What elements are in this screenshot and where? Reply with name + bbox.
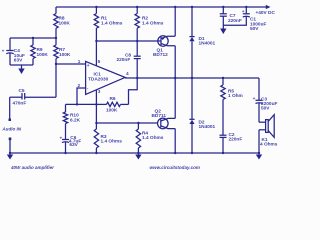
svg-text:+: +: [242, 10, 245, 15]
speaker K1: [259, 121, 266, 123]
resistor R3: [95, 123, 97, 129]
diode D1: [191, 6, 193, 8]
svg-text:BD711: BD711: [152, 113, 167, 119]
svg-text:6.2K: 6.2K: [70, 117, 81, 123]
resistor R8: [55, 7, 57, 14]
capacitor C2: [220, 134, 227, 136]
wire Q1 emitter to rail: [174, 6, 176, 8]
svg-text:www.circuitstoday.com: www.circuitstoday.com: [150, 165, 200, 170]
node input ground terminal: [9, 138, 12, 141]
svg-text:220nF: 220nF: [117, 57, 131, 63]
svg-text:1N4001: 1N4001: [199, 40, 216, 46]
svg-text:100K: 100K: [59, 20, 71, 26]
svg-text:BD712: BD712: [153, 52, 168, 58]
svg-text:+: +: [87, 64, 90, 69]
svg-text:50V: 50V: [250, 26, 259, 32]
ground (bias network): [21, 65, 23, 69]
ground (rail left end): [9, 153, 11, 155]
svg-text:3: 3: [98, 89, 101, 95]
svg-text:4 Ohms: 4 Ohms: [260, 142, 278, 148]
resistor R2: [136, 6, 138, 8]
wire base node y41: [96, 40, 157, 42]
svg-text:63V: 63V: [69, 142, 78, 148]
resistor R9: [32, 38, 34, 45]
resistor R7: [55, 38, 57, 45]
capacitor C8 220nF: [136, 40, 138, 42]
wire C4-R9 ground link: [10, 64, 33, 66]
wire feedback jog to output: [129, 78, 138, 104]
svg-text:220nF: 220nF: [228, 18, 242, 24]
svg-text:TDA2030: TDA2030: [88, 77, 109, 83]
transistor Q2 BD711: [158, 118, 169, 129]
svg-text:+: +: [2, 49, 5, 54]
node audio in terminal: [9, 119, 12, 122]
svg-text:+: +: [60, 136, 63, 141]
op-amp IC1 TDA2030: [86, 61, 126, 94]
svg-text:220nF: 220nF: [229, 137, 243, 143]
svg-text:470nF: 470nF: [13, 100, 27, 106]
node +40V DC terminal: [266, 5, 271, 9]
wire Q1 collector to output: [174, 46, 176, 78]
ground (rail middle): [137, 153, 139, 155]
svg-text:Audio IN: Audio IN: [1, 127, 21, 132]
wire Q2 collector to output: [174, 78, 176, 118]
svg-text:63V: 63V: [14, 58, 23, 64]
svg-text:IC1: IC1: [94, 72, 102, 78]
svg-text:1.4 Ohms: 1.4 Ohms: [142, 135, 164, 141]
svg-text:100K: 100K: [59, 52, 71, 58]
ground (rail right end): [258, 153, 260, 155]
capacitor C4: [9, 38, 11, 51]
wire top rail +40V: [56, 6, 266, 8]
node R3 top: [95, 122, 97, 124]
svg-text:+40V DC: +40V DC: [256, 10, 276, 16]
capacitor C1: [245, 6, 247, 8]
svg-text:+: +: [253, 97, 256, 102]
svg-text:R6: R6: [110, 96, 116, 102]
resistor R6: [96, 103, 106, 105]
wire Q2 emitter to rail: [174, 129, 176, 153]
wire pin 5: [95, 40, 97, 42]
wire bottom ground rail: [10, 152, 259, 154]
wire pin 1: [56, 63, 86, 65]
svg-text:4: 4: [126, 71, 129, 77]
wire pin 3: [95, 90, 97, 123]
wire bias node y38: [10, 37, 56, 39]
resistor R4: [137, 123, 139, 129]
svg-text:50V: 50V: [261, 106, 270, 112]
diode D2: [191, 78, 193, 119]
svg-text:5: 5: [98, 59, 101, 65]
resistor R10: [65, 104, 67, 112]
svg-text:40W audio amplifier: 40W audio amplifier: [10, 165, 54, 170]
wire pin 2: [77, 88, 86, 104]
node R4 top: [137, 122, 139, 124]
resistor R5: [222, 78, 224, 85]
wire audio input lead: [9, 97, 11, 118]
wire feedback link: [66, 103, 97, 105]
svg-text:100K: 100K: [37, 52, 49, 58]
capacitor C5 input: [25, 96, 56, 98]
svg-text:1 Ohm: 1 Ohm: [228, 93, 243, 99]
wire output node y78: [125, 77, 259, 79]
svg-text:1: 1: [78, 59, 81, 65]
transistor Q1 BD712: [158, 36, 168, 46]
svg-text:100K: 100K: [106, 108, 118, 114]
svg-text:1.4 Ohms: 1.4 Ohms: [142, 20, 164, 26]
capacitor C3: [258, 78, 260, 100]
node pin1 junction: [55, 63, 57, 65]
capacitor C6: [65, 124, 67, 140]
wire input ground stub: [9, 139, 11, 153]
svg-text:1.4 Ohms: 1.4 Ohms: [101, 20, 123, 26]
svg-text:C5: C5: [19, 88, 25, 94]
svg-text:1N4001: 1N4001: [199, 124, 216, 130]
svg-text:1.4 Ohms: 1.4 Ohms: [101, 139, 123, 145]
ground (C7/C1): [220, 29, 226, 35]
resistor R1: [95, 6, 97, 8]
capacitor C7: [222, 6, 224, 8]
